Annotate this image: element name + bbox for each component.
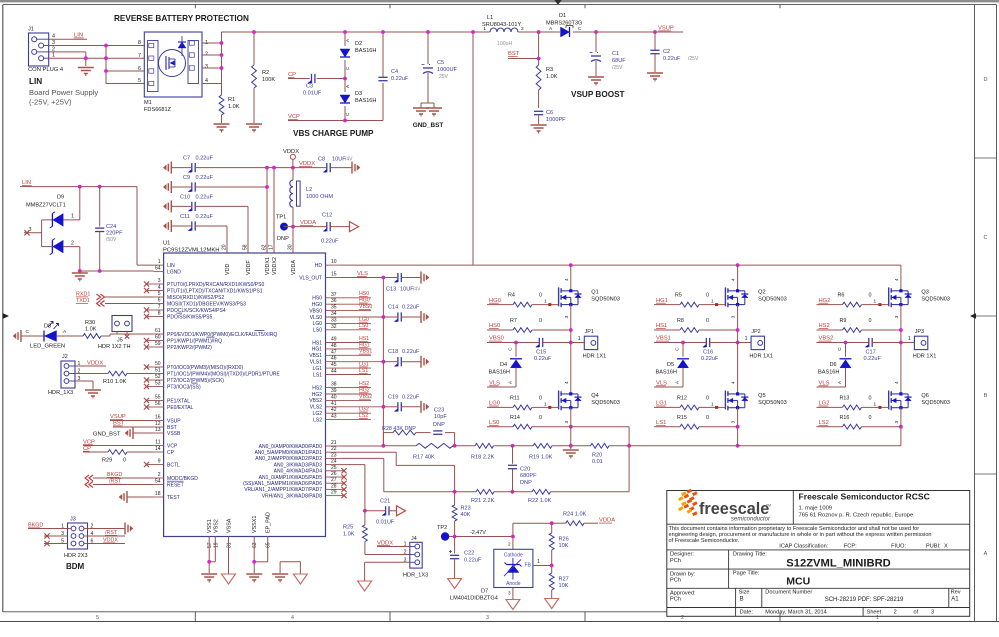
wire VSS2 jog (209, 537, 215, 562)
pin 17 VDDX2 (269, 244, 279, 275)
diode D5 BAS16H (656, 343, 690, 388)
capacitor C13 (385, 273, 421, 292)
svg-text:HS0: HS0 (312, 296, 322, 302)
svg-text:63: 63 (252, 542, 258, 548)
svg-text:4: 4 (564, 381, 570, 384)
svg-text:SQD50N03: SQD50N03 (758, 400, 787, 406)
svg-text:J4: J4 (411, 536, 417, 542)
svg-text:R1: R1 (228, 97, 235, 103)
junction (453, 490, 457, 494)
svg-text:VLS_OUT: VLS_OUT (299, 275, 322, 281)
svg-text:R13: R13 (840, 395, 850, 401)
svg-text:4: 4 (894, 278, 900, 281)
pin 43 LS2 (313, 413, 371, 423)
off-page connector at C21 (397, 506, 406, 516)
svg-text:HG1: HG1 (312, 347, 323, 353)
svg-text:PT1/IOC1/(PWM4)/(MOSI)/(TXD0)/: PT1/IOC1/(PWM4)/(MOSI)/(TXD0)/LPDR1/PTUR… (167, 371, 280, 377)
svg-text:MMBZ27VCLT1: MMBZ27VCLT1 (26, 203, 66, 209)
net label LS1 (656, 420, 666, 426)
svg-text:LM4041DIDBZTG4: LM4041DIDBZTG4 (450, 596, 498, 602)
ground below VSS1 (201, 574, 217, 583)
net label HG2 (819, 298, 831, 304)
svg-text:LG1: LG1 (313, 366, 323, 372)
junction (511, 490, 515, 494)
junction (343, 77, 347, 81)
wire (75, 380, 93, 382)
resistor R4 0 (487, 293, 559, 307)
svg-text:0: 0 (869, 415, 872, 421)
wire (49, 45, 145, 47)
svg-text:31: 31 (227, 542, 233, 548)
pin 8 PDO (144, 311, 213, 321)
svg-text:15: 15 (331, 272, 337, 278)
svg-text:1: 1 (874, 299, 877, 305)
wire (449, 536, 513, 538)
capacitor C1 68UF (590, 32, 627, 76)
resistor R20 0.01 shunt (591, 443, 610, 465)
wire (552, 445, 591, 447)
pin 36 HG0 (312, 298, 371, 308)
wire (75, 373, 108, 375)
svg-text:VBS1: VBS1 (309, 353, 322, 359)
wire drain Q3 (900, 265, 902, 291)
svg-text:SQD50N03: SQD50N03 (591, 400, 620, 406)
svg-text:PDOCLK/SCK/KWS4/PS4: PDOCLK/SCK/KWS4/PS4 (167, 308, 226, 314)
overline SS on PT3 (192, 382, 198, 384)
title block drawn by (670, 571, 810, 588)
svg-text:C13: C13 (386, 286, 396, 292)
transistor Q1 SQD50N03 (559, 278, 620, 318)
svg-text:22: 22 (331, 446, 337, 452)
wire TP2 node riser (513, 523, 552, 549)
resistor R27 10K (549, 566, 568, 599)
wire (28, 528, 71, 530)
svg-text:R16: R16 (840, 415, 850, 421)
junction (78, 185, 82, 189)
ground right of C18 (421, 356, 429, 368)
svg-text:FDS6681Z: FDS6681Z (144, 107, 172, 113)
wire drain Q1 (570, 265, 572, 291)
svg-text:680PF: 680PF (520, 473, 537, 479)
svg-text:SRU8043-101Y: SRU8043-101Y (482, 22, 521, 28)
ground left of C7 (163, 162, 171, 174)
pin 38 HS2 (312, 381, 371, 391)
title block approved (670, 590, 961, 603)
svg-text:0: 0 (123, 458, 126, 464)
svg-text:1000UF: 1000UF (437, 67, 457, 73)
wire source Q3 (900, 305, 902, 394)
svg-text:VSSB: VSSB (167, 431, 181, 437)
net label VSUP (658, 26, 674, 32)
pin 55 PE1 (144, 395, 190, 405)
wire (92, 381, 94, 389)
junction (736, 341, 740, 345)
resistor R19 1.0K (529, 443, 553, 460)
capacitor C19 (383, 394, 421, 411)
svg-text:R14: R14 (510, 415, 520, 421)
capacitor C20 680PF DNP (508, 446, 537, 492)
svg-text:R10 1.0K: R10 1.0K (103, 379, 127, 385)
svg-text:R29: R29 (102, 458, 112, 464)
svg-text:0.22uF: 0.22uF (196, 194, 214, 200)
capacitor C23 10pF DNP (433, 408, 455, 446)
resistor R13 0 (817, 395, 889, 409)
wire VLS bus (382, 278, 384, 446)
pin 47 VBS1 (309, 349, 372, 359)
svg-text:VDDA: VDDA (291, 260, 297, 275)
junction (382, 276, 386, 280)
pin 3 PTUT0 (144, 278, 265, 288)
pin 18 TEST (154, 491, 180, 501)
junction (426, 30, 430, 34)
svg-text:R27: R27 (559, 577, 569, 583)
caption Board Power Supply (29, 88, 98, 107)
junction (736, 425, 740, 429)
pin 23 AN0_2 (255, 452, 340, 462)
wire C9 to U1 (195, 186, 267, 188)
resistor R16 0 (817, 415, 872, 429)
svg-text:MISO/(RXD1)/KWS2/PS2: MISO/(RXD1)/KWS2/PS2 (167, 295, 224, 301)
svg-text:0.22uF: 0.22uF (464, 558, 482, 564)
svg-text:9: 9 (158, 459, 161, 465)
svg-text:18: 18 (155, 491, 161, 497)
junction (899, 425, 903, 429)
junction (265, 166, 269, 170)
svg-text:JP3: JP3 (915, 329, 924, 335)
svg-text:of Freescale Semiconductor.: of Freescale Semiconductor. (669, 538, 740, 544)
pin 10 HD (315, 259, 341, 269)
pin 11 VCP (154, 440, 178, 450)
svg-text:0: 0 (539, 415, 542, 421)
svg-text:0.01UF: 0.01UF (303, 91, 322, 97)
svg-text:LS2: LS2 (313, 417, 322, 423)
ground left of C9 (163, 181, 171, 193)
wire (518, 31, 560, 33)
pin 35 VBS0 (309, 304, 372, 314)
svg-text:3: 3 (158, 278, 161, 284)
svg-text:L1: L1 (487, 15, 493, 21)
svg-text:61: 61 (155, 328, 161, 334)
svg-text:Sheet: Sheet (867, 609, 882, 615)
svg-text:16: 16 (155, 415, 161, 421)
svg-text:C23: C23 (434, 408, 444, 414)
resistor R14 0 (487, 415, 542, 429)
svg-text:AN0_3/KWAD3/PAD3: AN0_3/KWAD3/PAD3 (274, 462, 323, 468)
svg-text:39: 39 (331, 388, 337, 394)
capacitor C16 0.22uF (701, 338, 738, 362)
svg-text:C15: C15 (536, 350, 546, 356)
pin 21 AN0_0 (259, 440, 341, 450)
svg-text:R11: R11 (510, 395, 520, 401)
pin 41 VLS2 (310, 401, 384, 411)
wire VLS phase 1 (654, 386, 683, 388)
svg-text:/4V: /4V (413, 286, 421, 292)
junction (220, 66, 224, 70)
wire (110, 333, 154, 335)
svg-text:X: X (944, 544, 948, 550)
svg-text:D6: D6 (830, 362, 837, 368)
junction (252, 30, 256, 34)
svg-text:J3: J3 (70, 517, 76, 523)
svg-text:MBRS260T3G: MBRS260T3G (546, 21, 582, 27)
pin 37 HS0 (312, 291, 371, 301)
net label TXD1 (76, 298, 105, 307)
svg-text:21: 21 (331, 440, 337, 446)
net label LG0 (489, 401, 500, 407)
svg-text:D2: D2 (355, 41, 362, 47)
wire Q6 source to shunt (900, 408, 902, 446)
svg-text:24: 24 (331, 459, 337, 465)
overline IRQ (207, 336, 215, 338)
wire VDDF riser (247, 206, 249, 253)
svg-text:C4: C4 (391, 69, 398, 75)
pin 51 PT1 (154, 368, 281, 378)
svg-text:1: 1 (158, 259, 161, 265)
wire (80, 270, 154, 272)
svg-text:765 61 Roznov p. R. Czech repu: 765 61 Roznov p. R. Czech republic, Euro… (799, 513, 914, 519)
svg-text:59: 59 (155, 341, 161, 347)
IC U1 PC9S12ZVML12MKH (163, 241, 326, 537)
svg-text:35: 35 (331, 305, 337, 311)
svg-text:10pF: 10pF (434, 414, 447, 420)
svg-text:1: 1 (483, 26, 486, 32)
wire (49, 57, 145, 59)
wire VDDX2 riser (273, 168, 275, 253)
wire tie bus J1-M1 (105, 46, 107, 84)
svg-text:C5: C5 (437, 60, 444, 66)
svg-text:VSUP BOOST: VSUP BOOST (571, 90, 625, 99)
svg-text:Q2: Q2 (758, 290, 765, 296)
capacitor C8 (318, 157, 353, 173)
pin 50 PT0 (144, 361, 244, 371)
pin 62 VDDX1 (262, 244, 272, 275)
ground right of C14 (421, 311, 429, 323)
svg-text:GND_BST: GND_BST (93, 432, 121, 438)
wire (317, 78, 345, 80)
wire LS2 net (862, 426, 901, 428)
svg-text:1.0K: 1.0K (546, 74, 558, 80)
svg-text:TEST: TEST (167, 495, 180, 501)
junction (104, 56, 108, 60)
svg-text:SQD50N03: SQD50N03 (921, 400, 950, 406)
resistor R8 0 (654, 318, 738, 332)
junction (220, 41, 224, 45)
net label CP (288, 72, 296, 78)
svg-text:R18 2.2K: R18 2.2K (471, 455, 495, 461)
resistor R23 40K (452, 492, 471, 537)
svg-text:1: 1 (544, 299, 547, 305)
svg-text:Document Number: Document Number (765, 590, 812, 596)
svg-text:VCP: VCP (167, 443, 178, 449)
svg-text:3: 3 (564, 421, 570, 424)
svg-text:-2.47V: -2.47V (470, 530, 486, 536)
svg-text:C6: C6 (546, 110, 553, 116)
wire AN0_5 jog (341, 452, 455, 492)
wire (284, 226, 327, 228)
junction (453, 535, 457, 539)
svg-text:43: 43 (331, 414, 337, 420)
svg-text:BAS16H: BAS16H (818, 370, 839, 376)
svg-text:27: 27 (331, 477, 337, 483)
svg-text:5: 5 (138, 78, 141, 84)
wire (75, 365, 106, 367)
pin 59 PP2 (144, 341, 212, 351)
svg-text:0.22uF: 0.22uF (534, 356, 552, 362)
svg-text:32: 32 (331, 324, 337, 330)
svg-text:8: 8 (158, 311, 161, 317)
ground below R1 (214, 124, 230, 133)
svg-text:C21: C21 (380, 499, 390, 505)
svg-text:1: 1 (711, 401, 714, 407)
net label BKGD at pin2 (85, 472, 122, 481)
wire (293, 167, 327, 169)
svg-text:Q6: Q6 (921, 393, 928, 399)
svg-text:/25V: /25V (612, 65, 623, 71)
svg-text:VSUP: VSUP (167, 418, 181, 424)
wire (110, 420, 154, 422)
wire (83, 445, 154, 447)
svg-text:0: 0 (706, 415, 709, 421)
svg-text:PCh: PCh (670, 597, 681, 603)
logo freescale (678, 489, 771, 523)
diode D1 MBRS260T3G (546, 13, 582, 37)
title block designer (670, 551, 891, 569)
ground triangle below VSSA (222, 574, 236, 584)
wire drain Q2 (737, 265, 739, 291)
svg-text:(-25V, +25V): (-25V, +25V) (29, 98, 72, 107)
title block (667, 491, 970, 617)
wire (105, 303, 154, 305)
junction (537, 57, 541, 61)
svg-text:C2: C2 (663, 49, 670, 55)
svg-text:0.22uF: 0.22uF (391, 76, 409, 82)
svg-text:R2: R2 (262, 70, 269, 76)
junction (569, 444, 573, 448)
svg-text:PE1/XTAL: PE1/XTAL (167, 398, 190, 404)
junction (291, 225, 295, 229)
ground below VSSX1 (246, 574, 262, 583)
svg-text:0.22uF: 0.22uF (196, 175, 214, 181)
resistor R11 0 (487, 395, 559, 409)
svg-text:11: 11 (155, 440, 160, 446)
svg-text:B: B (984, 393, 988, 399)
svg-text:1: 1 (908, 336, 911, 342)
svg-text:HDR 1X1: HDR 1X1 (583, 354, 607, 360)
net label VLS phase 0 (489, 380, 500, 386)
wire VDDA riser (292, 227, 294, 253)
wire (377, 546, 410, 548)
svg-text:0: 0 (706, 395, 709, 401)
svg-text:LG0: LG0 (313, 321, 323, 327)
pin 6 MOSI (154, 298, 247, 308)
capacitor C9 (171, 175, 213, 192)
svg-text:R6: R6 (838, 293, 845, 299)
svg-text:Rev: Rev (951, 590, 961, 596)
svg-text:MOSI/(TXD1)/DBGEEV/KWS3/PS3: MOSI/(TXD1)/DBGEEV/KWS3/PS3 (167, 301, 246, 307)
svg-text:23: 23 (331, 452, 337, 458)
svg-text:SQD50N03: SQD50N03 (758, 297, 787, 303)
svg-text:0: 0 (869, 293, 872, 299)
wire (105, 296, 154, 298)
svg-text:C: C (26, 329, 30, 335)
svg-text:C22: C22 (464, 551, 474, 557)
transistor Q4 SQD50N03 (559, 381, 620, 424)
svg-text:C17: C17 (866, 350, 876, 356)
capacitor C2 (650, 32, 699, 72)
net label /RST at J3 (105, 530, 118, 536)
svg-text:HG0: HG0 (312, 302, 323, 308)
svg-text:VSSA: VSSA (227, 518, 233, 533)
svg-text:LS1: LS1 (313, 372, 322, 378)
svg-text:C12: C12 (322, 213, 332, 219)
svg-text:37: 37 (331, 292, 337, 298)
junction (569, 328, 573, 332)
net label CP at pin14 (83, 446, 91, 452)
svg-text:LIN: LIN (29, 77, 42, 86)
resistor R3 (536, 65, 558, 108)
svg-text:2: 2 (521, 26, 524, 32)
pin 2 MODC (154, 472, 199, 482)
ground below C1 (588, 77, 604, 86)
svg-text:VBS2: VBS2 (309, 398, 322, 404)
svg-text:0: 0 (869, 395, 872, 401)
wire (83, 451, 108, 453)
svg-text:L2: L2 (306, 187, 312, 193)
junction (844, 341, 848, 345)
wire (202, 67, 222, 69)
junction (569, 341, 573, 345)
ground triangle below R27 (545, 599, 559, 609)
resistor R28 43K DNP (382, 426, 431, 446)
pin 24 AN0_3 (274, 459, 341, 469)
svg-text:CON PLUG 4: CON PLUG 4 (28, 67, 64, 73)
pin 60 PP1 (144, 335, 222, 345)
wire VSS1 (208, 537, 210, 574)
svg-text:R4: R4 (508, 293, 515, 299)
pin 31 VSSA (227, 518, 233, 548)
diode D3 BAS16H (340, 79, 376, 121)
pin 19 VSS2 (213, 519, 219, 548)
jumper JP3 HDR 1X1 (901, 329, 936, 360)
svg-text:JP1: JP1 (585, 329, 594, 335)
junction (104, 44, 108, 48)
svg-text:PT0/IOC0(PWM3)/(MISO)/(RXD0): PT0/IOC0(PWM3)/(MISO)/(RXD0) (167, 365, 243, 371)
svg-text:Anode: Anode (506, 581, 521, 587)
svg-text:D8: D8 (44, 324, 51, 330)
svg-text:1000PF: 1000PF (546, 117, 566, 123)
net label VBS0 (489, 336, 504, 342)
wire VBS0 (487, 342, 539, 344)
svg-text:4: 4 (894, 381, 900, 384)
junction (265, 185, 269, 189)
svg-text:60: 60 (155, 335, 161, 341)
svg-text:1.0K: 1.0K (228, 104, 240, 110)
net label VDDX at J4 (377, 540, 393, 546)
resistor R15 0 (654, 415, 709, 429)
pin 15 VLS_OUT (299, 272, 340, 282)
net label VBS1 (656, 336, 671, 342)
junction (537, 30, 541, 34)
net label VCP at pin11 (83, 439, 95, 445)
svg-text:C24: C24 (106, 224, 116, 230)
svg-text:HDR 1X1: HDR 1X1 (749, 354, 773, 360)
svg-text:100uH: 100uH (497, 41, 513, 47)
wire (202, 42, 222, 44)
resistor R5 0 (654, 293, 725, 307)
wire AN0_0 to divider (341, 445, 384, 447)
svg-text:41: 41 (331, 401, 337, 407)
wire (106, 83, 144, 85)
